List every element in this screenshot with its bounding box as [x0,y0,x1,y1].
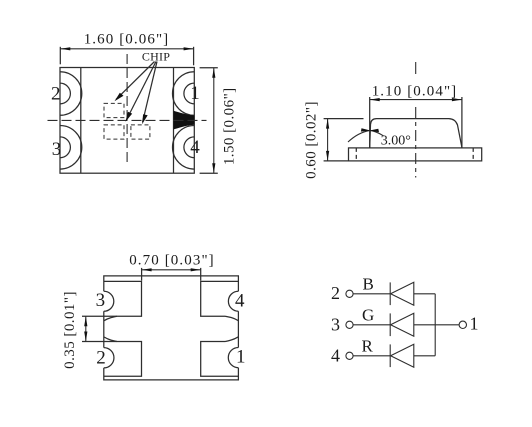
dim 1.10 arrow right [452,98,462,101]
common anode bus [434,294,436,356]
package outline bottom view (left edge with notch gaps) [104,276,239,380]
substrate base [349,148,482,161]
svg-text:0.70 [0.03"]: 0.70 [0.03"] [129,252,215,268]
wire pin2 to diode B [353,293,390,295]
wire diode R to bus [414,355,435,357]
svg-text:1.60 [0.06"]: 1.60 [0.06"] [84,32,170,48]
chip leader arrow 2 [127,62,156,120]
package outline top view [60,68,194,174]
dim 1.60 line [60,48,193,50]
pad 4 (bottom view) [201,281,239,320]
dim 0.70 arrow right [191,268,201,271]
dim 1.10 extension line left [369,97,371,148]
angle leader arcs [348,130,370,142]
svg-text:3: 3 [331,314,340,334]
angle leader arrowheads [361,128,370,131]
svg-text:0.60 [0.02"]: 0.60 [0.02"] [304,101,320,179]
dim 0.70 line [142,269,201,271]
dim 0.70 arrow left [142,268,152,271]
dim 1.50 extension line bottom [200,172,218,174]
svg-text:0.35 [0.01"]: 0.35 [0.01"] [62,291,78,369]
dim 0.60 arrow top [326,119,329,129]
dim 0.35 extension line bottom [82,341,117,343]
hidden pad edge left (dashed) [355,148,357,161]
dim 0.35 extension line top [82,315,117,317]
svg-text:2: 2 [96,348,106,369]
dim 1.60 extension line left [59,47,61,65]
dim 1.50 line [213,68,215,173]
wire diode G to pin 1 [414,324,459,326]
pad 2 (bottom view) [104,337,142,376]
svg-text:R: R [362,336,374,355]
chip square 1 (dashed) [104,103,124,117]
chip square 3 (dashed) [131,125,150,139]
lens dome profile [370,119,462,148]
svg-text:1: 1 [470,314,479,334]
cathode index mark [174,111,195,130]
pad 4 outer arc [173,126,195,170]
diode B cathode bar [389,282,391,305]
dim 0.60 arrow bottom [326,151,329,161]
diode R triangle [391,344,414,367]
dim 0.60 extension line top [324,118,364,120]
dim 1.50 arrow top [212,68,215,78]
pad 3 outer arc [60,126,82,170]
dim 0.70 extension line left [141,268,143,281]
svg-text:3: 3 [96,290,106,311]
pad 3 (bottom view) [104,281,142,320]
pin 4 terminal circle [346,352,353,359]
svg-text:1: 1 [190,83,200,104]
svg-text:2: 2 [331,283,340,303]
vertical centerline [126,54,128,165]
wire diode B to bus [414,293,435,295]
svg-text:4: 4 [190,137,200,158]
pad 2 outer arc [60,72,82,116]
chip leader arrow 3 [143,62,157,123]
side view centerline [415,62,417,78]
pad 1 (bottom view) [201,337,239,377]
dim 0.60 line [327,119,329,161]
svg-text:B: B [363,274,374,293]
dim 0.35 arrow top [84,316,87,326]
svg-text:4: 4 [331,345,340,365]
dim 1.10 extension line right [461,97,463,148]
pad 3 inner arc [60,137,70,158]
pad boundary line left [80,68,82,174]
dim 1.60 extension line right [193,47,195,66]
diode R cathode bar [389,344,391,367]
svg-text:1.10 [0.04"]: 1.10 [0.04"] [372,83,458,99]
pad 2 inner arc [60,83,70,104]
pad 4 inner arc [184,137,194,158]
wire pin4 to diode R [353,355,390,357]
pin 3 terminal circle [346,321,353,328]
dim 1.50 extension line top [200,67,218,69]
pin 2 terminal circle [346,290,353,297]
dim 0.35 line [85,316,87,341]
svg-text:4: 4 [235,290,245,311]
svg-text:3: 3 [52,139,62,160]
dim 0.70 extension line right [200,268,202,281]
chip leader arrow 1 [116,62,155,100]
dim 1.50 arrow bottom [212,163,215,173]
diode B triangle [391,282,414,305]
svg-text:3.00°: 3.00° [381,133,411,148]
dim 1.10 arrow left [370,98,380,101]
dim 1.10 line [370,99,462,101]
wire pin3 to diode G [353,324,390,326]
svg-text:G: G [362,305,374,324]
svg-text:1.50 [0.06"]: 1.50 [0.06"] [222,87,238,165]
diode G triangle [391,313,414,336]
svg-text:2: 2 [51,83,61,104]
dim 1.60 arrow right [184,47,194,50]
chip square 2 (dashed) [104,125,124,139]
dim 0.35 arrow bottom [84,332,87,342]
svg-text:CHIP: CHIP [142,49,170,63]
pad 1 inner arc [184,83,194,104]
diode G cathode bar [389,313,391,336]
hidden pad edge right (dashed) [472,148,474,161]
horizontal centerline [48,119,207,121]
dim 1.60 arrow left [60,47,70,50]
dim 0.60 extension line bottom [324,160,349,162]
pad 1 outer arc [173,72,195,116]
pin 1 terminal circle [459,321,466,328]
svg-text:1: 1 [236,347,246,368]
pad boundary line right [173,68,175,174]
